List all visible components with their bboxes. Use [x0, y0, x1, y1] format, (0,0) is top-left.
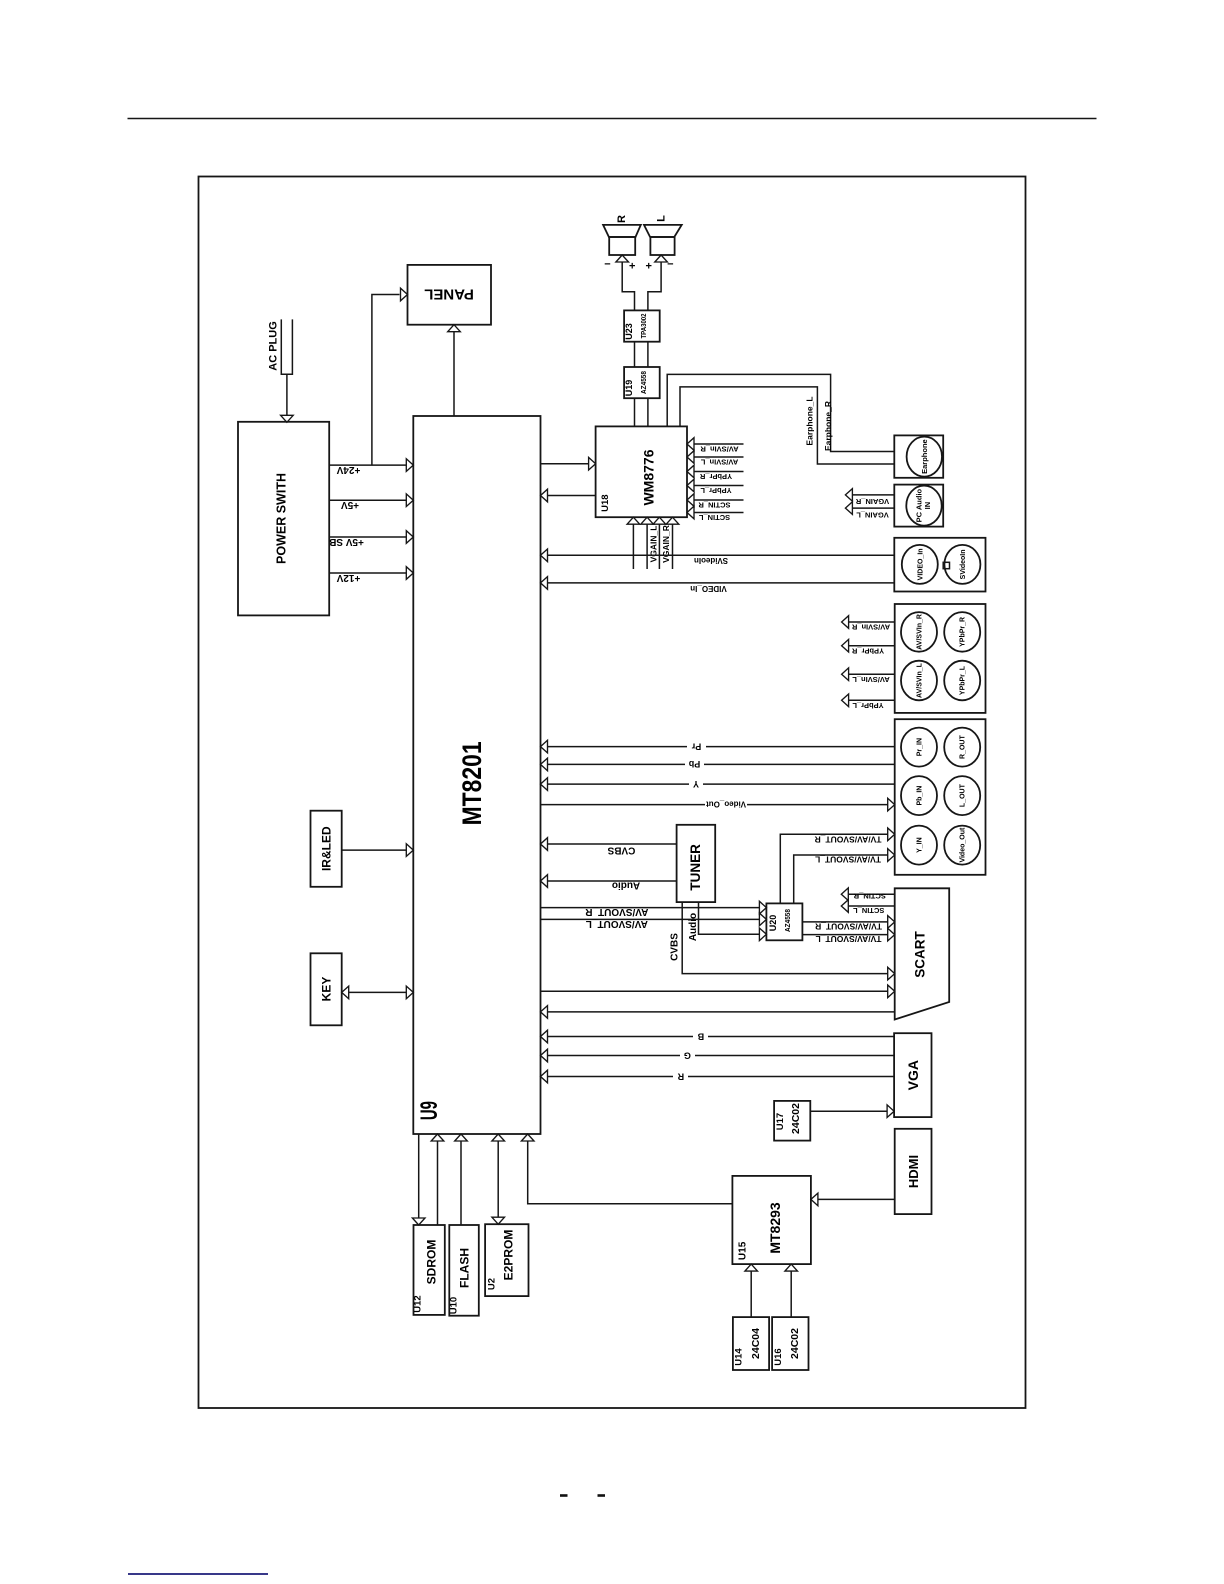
- wire AC plug to power switch: [286, 374, 288, 415]
- wire SDROM to MT8201: [431, 1134, 444, 1141]
- svg-text:VGAIN_L: VGAIN_L: [856, 511, 889, 520]
- wire MT8201 to SCART out: [541, 990, 889, 992]
- svg-text:U18: U18: [600, 494, 611, 511]
- codec U18 WM8776: [596, 426, 687, 517]
- svg-text:+24V: +24V: [336, 464, 360, 475]
- wire PANEL to MT8201: [448, 325, 461, 332]
- svg-text:24C02: 24C02: [790, 1103, 802, 1134]
- svg-text:YPbPr_L: YPbPr_L: [700, 486, 732, 495]
- svg-text:R_OUT: R_OUT: [960, 735, 967, 759]
- svg-text:AZ4558: AZ4558: [639, 371, 648, 394]
- wire MT8201 to WM8776: [541, 463, 589, 465]
- wire U17 to VGA: [810, 1110, 888, 1112]
- svg-text:VGAIN_R: VGAIN_R: [661, 525, 671, 563]
- svg-text:SCTIN_R: SCTIN_R: [698, 500, 731, 509]
- svg-text:AV/SVOUT_L: AV/SVOUT_L: [586, 918, 648, 929]
- wire Pr: [547, 746, 894, 748]
- svg-text:R: R: [677, 1071, 684, 1081]
- stub YPbPr_L into WM8776: [694, 485, 744, 487]
- wire MT8201 to SDROM: [418, 1134, 420, 1218]
- speaker R terminal: [616, 255, 629, 262]
- AC plug symbol: [281, 319, 292, 374]
- wire U14 to MT8293: [745, 1264, 758, 1271]
- block TUNER: [677, 825, 716, 902]
- svg-text:+: +: [645, 260, 651, 272]
- svg-text:TPA3002: TPA3002: [639, 314, 648, 339]
- wire U20 to SCART TV/AV/SVOUT_L: [802, 934, 888, 936]
- svg-text:MT8293: MT8293: [767, 1202, 783, 1254]
- wire +24V power to MT8201: [329, 464, 406, 466]
- svg-text:L: L: [656, 215, 668, 222]
- svg-text:U15: U15: [738, 1241, 749, 1260]
- wire E2PROM to MT8201 bidirectional: [492, 1134, 505, 1141]
- svg-text:SDROM: SDROM: [424, 1240, 438, 1285]
- wires U19 to WM8776: [634, 398, 636, 426]
- stub AV/SVIn_R: [849, 621, 895, 623]
- svg-text:U20: U20: [768, 915, 778, 932]
- eeprom U17 24C02: [774, 1101, 810, 1141]
- stub AV/SVIn_L into WM8776: [694, 456, 744, 458]
- block PANEL: [408, 265, 492, 325]
- wire HDMI to MT8293: [818, 1198, 895, 1200]
- stub YPbPr_L: [849, 699, 895, 701]
- svg-text:Pr: Pr: [691, 741, 701, 751]
- svg-text:AV/SVIn_R: AV/SVIn_R: [851, 623, 890, 632]
- svg-text:IR&LED: IR&LED: [319, 826, 333, 871]
- wire Y: [547, 783, 894, 785]
- speaker R: [603, 225, 641, 237]
- svg-text:Pr_IN: Pr_IN: [917, 738, 924, 756]
- svg-text:PANEL: PANEL: [424, 285, 474, 302]
- svg-text:HDMI: HDMI: [906, 1155, 921, 1188]
- block KEY: [311, 953, 342, 1025]
- svg-text:AV/SVIn_L: AV/SVIn_L: [917, 662, 924, 698]
- svg-text:−: −: [667, 258, 673, 270]
- wire AV/SVOUT_R MT8201 to U20: [541, 907, 760, 909]
- outer border frame: [199, 177, 1026, 1409]
- connector SCART: [895, 888, 950, 1019]
- svg-text:AV/SVIn_R: AV/SVIn_R: [917, 614, 924, 650]
- svg-text:U19: U19: [624, 380, 634, 397]
- wire TV/AV/SVOUT_R to connector: [780, 834, 888, 903]
- svg-text:YPbPr_R: YPbPr_R: [699, 472, 732, 481]
- svg-text:VGAIN_R: VGAIN_R: [855, 497, 889, 506]
- connector VGA: [894, 1033, 931, 1117]
- svg-text:AV/SVOUT_R: AV/SVOUT_R: [584, 906, 648, 917]
- stub AV/SVIn_R into WM8776: [694, 443, 744, 445]
- wire +5V: [329, 499, 406, 501]
- svg-text:U17: U17: [775, 1113, 786, 1130]
- stub VGAIN_R to PC Audio: [852, 494, 894, 496]
- connector box component in / AV out: [895, 719, 986, 875]
- svg-text:24C04: 24C04: [750, 1328, 762, 1359]
- svg-text:+12V: +12V: [336, 572, 360, 583]
- connector HDMI: [895, 1129, 932, 1214]
- svg-text:TV/AV/SVOUT_R: TV/AV/SVOUT_R: [815, 921, 882, 931]
- svg-text:U9: U9: [416, 1101, 443, 1120]
- connector Earphone: [894, 435, 943, 477]
- stub SCTIN_L into WM8776: [694, 512, 744, 514]
- svg-text:Y: Y: [693, 779, 699, 789]
- svg-text:AV/SVIn_R: AV/SVIn_R: [700, 444, 739, 453]
- wire speaker L to U23: [648, 262, 661, 311]
- svg-text:TV/AV/SVOUT_L: TV/AV/SVOUT_L: [816, 934, 882, 944]
- stub SCTIN_L from SCART: [848, 905, 894, 907]
- svg-text:U16: U16: [773, 1348, 784, 1365]
- svg-text:U23: U23: [624, 323, 634, 340]
- svg-text:U2: U2: [486, 1278, 497, 1290]
- wire IR&LED to MT8201: [342, 849, 407, 851]
- svg-text:IN: IN: [923, 502, 932, 510]
- stub VGAIN_L to PC Audio: [852, 507, 894, 509]
- wire CVBS MT8201 to TUNER: [547, 843, 676, 845]
- wire Earphone_L from WM8776: [680, 387, 894, 464]
- wire Audio TUNER to MT8201: [547, 880, 676, 882]
- svg-text:Earphone: Earphone: [920, 439, 929, 474]
- stub YPbPr_R: [849, 645, 895, 647]
- opamp U20 AZ4558: [766, 903, 802, 940]
- wire +12V: [329, 572, 406, 574]
- svg-text:SVideoIn: SVideoIn: [960, 549, 967, 579]
- svg-text:SCTIN_R: SCTIN_R: [853, 891, 886, 900]
- wires U23 to U19: [634, 342, 636, 367]
- wire VIDEO_In MT8201 to video connector: [547, 582, 894, 584]
- wire Pb: [547, 763, 894, 765]
- svg-text:MT8201: MT8201: [457, 741, 487, 825]
- wire SCART to MT8201 in: [547, 1011, 894, 1013]
- svg-text:+5V SB: +5V SB: [329, 536, 364, 547]
- svg-text:YPbPr_L: YPbPr_L: [960, 665, 967, 695]
- svg-text:B: B: [697, 1031, 704, 1041]
- wire U16 to MT8293: [785, 1264, 798, 1271]
- wire KEY to MT8201 bidirectional: [349, 991, 407, 993]
- block IR&LED: [311, 811, 342, 887]
- svg-text:YPbPr_L: YPbPr_L: [852, 701, 884, 710]
- svg-text:U10: U10: [448, 1297, 459, 1314]
- svg-text:AC PLUG: AC PLUG: [267, 321, 279, 371]
- stub VGAIN lines below WM8776: [627, 517, 640, 524]
- svg-text:TV/AV/SVOUT_L: TV/AV/SVOUT_L: [815, 854, 881, 864]
- svg-text:POWER SWITH: POWER SWITH: [275, 473, 289, 564]
- svg-text:E2PROM: E2PROM: [501, 1230, 515, 1281]
- svg-text:U12: U12: [413, 1295, 424, 1312]
- page header rule: [128, 118, 1097, 120]
- connector box VIDEO/SVideo: [894, 538, 985, 592]
- wire G MT8201 to VGA: [547, 1055, 894, 1057]
- svg-text:Audio: Audio: [612, 880, 640, 891]
- svg-text:Audio: Audio: [688, 913, 699, 941]
- wire Video_Out: [541, 804, 889, 806]
- svg-text:Earphone_R: Earphone_R: [823, 401, 833, 451]
- svg-text:KEY: KEY: [319, 977, 333, 1002]
- memory U12 SDROM: [414, 1225, 445, 1315]
- connector PC Audio IN: [894, 485, 943, 527]
- svg-text:Video_Out: Video_Out: [706, 800, 746, 809]
- wire WM8776 to MT8201: [547, 495, 595, 497]
- svg-text:G: G: [684, 1050, 691, 1060]
- svg-text:L_OUT: L_OUT: [960, 783, 967, 807]
- svg-text:VGAIN_L: VGAIN_L: [648, 526, 658, 563]
- svg-text:VIDEO_In: VIDEO_In: [917, 548, 924, 580]
- svg-text:+: +: [629, 260, 635, 272]
- wire TUNER Audio to U20: [699, 902, 760, 934]
- connector box AV/YPbPr inputs: [895, 604, 986, 713]
- svg-text:SCART: SCART: [912, 930, 927, 977]
- svg-text:VGA: VGA: [905, 1060, 921, 1090]
- svg-text:Pb_IN: Pb_IN: [917, 786, 924, 806]
- svg-text:−: −: [604, 258, 610, 270]
- memory U10 FLASH: [449, 1225, 479, 1316]
- svg-text:AV/SVIn_L: AV/SVIn_L: [852, 675, 890, 684]
- svg-text:Earphone_L: Earphone_L: [805, 396, 815, 445]
- svg-text:FLASH: FLASH: [457, 1248, 471, 1288]
- svg-text:CVBS: CVBS: [670, 933, 681, 961]
- block POWER SWITH: [238, 422, 329, 616]
- svg-text:WM8776: WM8776: [641, 449, 657, 505]
- memory U2 E2PROM: [485, 1224, 528, 1296]
- wire B MT8201 to VGA: [547, 1036, 894, 1038]
- speaker L: [644, 225, 682, 237]
- svg-text:Pb: Pb: [688, 759, 700, 769]
- wire MT8201 to MT8293: [521, 1134, 534, 1141]
- wire R MT8201 to VGA: [547, 1076, 894, 1078]
- svg-text:AV/SVIn_L: AV/SVIn_L: [700, 457, 738, 466]
- svg-text:U14: U14: [734, 1348, 745, 1366]
- svg-text:VIDEO_In: VIDEO_In: [690, 584, 727, 593]
- svg-text:CVBS: CVBS: [607, 845, 635, 856]
- stub YPbPr_R into WM8776: [694, 471, 744, 473]
- eeprom U14 24C04: [733, 1317, 769, 1370]
- svg-text:SCTIN_L: SCTIN_L: [853, 906, 885, 915]
- wire SVideoIn MT8201 to video connector: [547, 554, 894, 556]
- svg-text:SCTIN_L: SCTIN_L: [698, 513, 730, 522]
- svg-text:R: R: [616, 215, 628, 223]
- wire Earphone_R from WM8776: [667, 374, 894, 451]
- wire AV/SVOUT_L MT8201 to U20: [541, 918, 760, 920]
- stub SCTIN_R from SCART: [848, 893, 894, 895]
- svg-text:24C02: 24C02: [789, 1328, 801, 1359]
- svg-text:TUNER: TUNER: [688, 844, 703, 891]
- footer blue rule: [128, 1573, 268, 1575]
- wire TUNER CVBS to SCART: [682, 902, 888, 974]
- page number dashes: [560, 1494, 568, 1497]
- svg-text:TV/AV/SVOUT_R: TV/AV/SVOUT_R: [815, 834, 882, 844]
- chip U15 MT8293: [732, 1176, 811, 1264]
- wire FLASH to MT8201: [455, 1134, 468, 1141]
- svg-text:YPbPr_R: YPbPr_R: [851, 646, 884, 655]
- opamp U19 AZ4558: [624, 367, 660, 398]
- wire +24V branch to PANEL: [372, 295, 400, 466]
- wire U20 to SCART TV/AV/SVOUT_R: [802, 921, 888, 923]
- svg-text:Video_Out: Video_Out: [960, 827, 967, 863]
- svg-text:AZ4558: AZ4558: [783, 909, 792, 932]
- stub AV/SVIn_L: [849, 673, 895, 675]
- main chip U9 MT8201: [413, 416, 540, 1134]
- stub SCTIN_R into WM8776: [694, 499, 744, 501]
- svg-text:+5V: +5V: [341, 499, 359, 510]
- amp U23 TPA3002: [624, 310, 660, 341]
- wire +5V SB: [329, 536, 406, 538]
- speaker L terminal: [655, 255, 668, 262]
- svg-text:Y_IN: Y_IN: [917, 837, 924, 853]
- wire speaker R to U23: [622, 262, 634, 311]
- svg-text:SVideoIn: SVideoIn: [694, 556, 728, 565]
- eeprom U16 24C02: [772, 1317, 808, 1370]
- svg-text:YPbPr_R: YPbPr_R: [960, 617, 967, 647]
- wire TV/AV/SVOUT_L to connector: [794, 855, 888, 903]
